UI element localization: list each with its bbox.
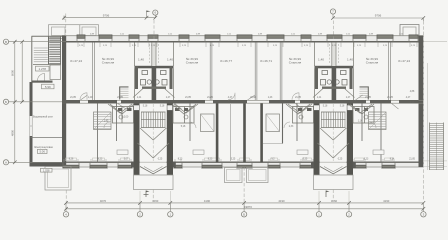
faint lines bottom-right [424,160,448,162]
exterior walls [62,36,424,168]
internal basement stairs at midwall [120,89,368,98]
axis dashed verticals [66,14,424,203]
stair flight right (dark hatch) [49,37,60,65]
entrance 1 canopy + porch [140,167,166,174]
svg-text:1,40: 1,40 [138,58,144,62]
annex mid wall [32,81,53,83]
svg-text:8,23: 8,23 [178,158,183,160]
svg-text:4190: 4190 [278,199,285,203]
svg-text:1,40: 1,40 [347,58,353,62]
svg-text:4190: 4190 [204,199,211,203]
porch bottom-left [45,167,71,191]
right stair core bottom [314,104,354,176]
svg-text:21,85: 21,85 [185,97,191,99]
svg-text:1,47: 1,47 [346,97,351,99]
svg-text:8,24: 8,24 [390,158,395,160]
svg-text:8,26: 8,26 [69,158,74,160]
svg-text:21,85: 21,85 [70,97,76,99]
svg-text:5,25: 5,25 [231,158,236,160]
room labels top band [70,57,410,65]
bottom dim tiers [66,203,423,211]
svg-text:4800: 4800 [11,129,15,136]
svg-text:5,18: 5,18 [160,106,165,108]
annex outline [32,35,63,37]
svg-text:3,93: 3,93 [410,102,415,104]
mid wall [62,99,424,101]
svg-text:Спальня: Спальня [366,61,379,65]
door arcs in lower rooms [104,122,376,128]
left wall [62,36,66,167]
svg-text:Спальня: Спальня [102,61,115,65]
dim figures above mid wall [70,97,411,99]
bottom axis circles [63,212,426,217]
svg-text:Зч 47,24: Зч 47,24 [70,59,82,63]
svg-text:21,08: 21,08 [250,97,256,99]
svg-text:0,25: 0,25 [158,158,163,160]
svg-text:Спальня: Спальня [289,61,302,65]
svg-text:А: А [5,160,7,164]
window wells [225,168,243,183]
door swing diagonals below mid wall [108,104,372,113]
svg-text:8,23: 8,23 [208,158,213,160]
svg-text:8,23: 8,23 [364,158,369,160]
tiny figures above top wall [90,34,404,36]
svg-text:1.038: 1.038 [43,168,50,172]
svg-text:Водомерный узел: Водомерный узел [33,116,53,119]
svg-text:1,43: 1,43 [268,97,273,99]
svg-text:Зч 46,71: Зч 46,71 [260,59,272,63]
windows top [77,35,418,42]
bath cluster boxes bottom band [113,107,375,124]
svg-text:5,18: 5,18 [143,106,148,108]
svg-text:4,47: 4,47 [228,97,233,99]
svg-text:2,00: 2,00 [124,117,129,119]
svg-text:21,85: 21,85 [117,97,123,99]
svg-text:1,41: 1,41 [317,97,322,99]
svg-text:Зч 47,24: Зч 47,24 [398,59,410,63]
left axes [3,39,66,165]
svg-text:6000: 6000 [11,69,15,76]
svg-text:4,88: 4,88 [410,91,415,93]
svg-text:21,85: 21,85 [295,97,301,99]
window bay stubs and radiators [64,42,417,161]
interior thin walls: top band (double lines) [93,42,391,100]
svg-text:Спальня: Спальня [186,61,199,65]
left stair core bottom [134,104,174,176]
svg-text:5,07: 5,07 [124,158,129,160]
benchmark flags [144,191,327,198]
svg-text:21,25: 21,25 [207,97,213,99]
svg-text:1,16: 1,16 [358,121,363,123]
svg-text:19870: 19870 [244,205,252,209]
svg-text:4190: 4190 [383,199,390,203]
small fixtures in clusters [118,108,368,111]
svg-text:3060: 3060 [152,199,159,203]
svg-text:5.99: 5.99 [45,85,51,89]
svg-text:0,25: 0,25 [338,158,343,160]
door arc [38,74,45,81]
svg-text:В: В [5,40,7,44]
svg-text:1,40: 1,40 [88,97,93,99]
roof outline top-left [49,25,99,39]
svg-text:4,47: 4,47 [406,97,411,99]
right top core [313,42,355,100]
svg-text:4070: 4070 [100,199,107,203]
misc small labels bottom band [104,91,415,128]
stair core axis dashes [153,104,333,161]
svg-text:Зч 46,77: Зч 46,77 [220,59,232,63]
svg-text:21,25: 21,25 [387,97,393,99]
svg-text:5.06: 5.06 [39,150,45,154]
dim figures above bottom wall [69,158,416,160]
top dim left [64,10,158,20]
mid wall door swing marks at gaps [81,95,399,109]
bottom wall hollow band [62,162,424,167]
svg-text:1,43: 1,43 [104,121,109,123]
interior walls bottom band [98,104,382,163]
svg-text:1,47: 1,47 [166,97,171,99]
svg-text:2,33: 2,33 [289,126,294,128]
svg-text:1,40: 1,40 [318,58,324,62]
svg-text:1,41: 1,41 [137,97,142,99]
svg-text:9706: 9706 [103,13,110,17]
svg-text:21,85: 21,85 [365,97,371,99]
svg-text:Б: Б [5,100,7,104]
svg-text:8,23: 8,23 [98,158,103,160]
svg-text:3060: 3060 [331,199,338,203]
entrance 2 canopy + porch [320,167,346,174]
top dim right [330,9,423,21]
windows bottom [62,161,396,169]
svg-text:1.278: 1.278 [38,67,46,71]
svg-text:5,25: 5,25 [303,158,308,160]
kitchen corner stairs (vertical rungs boxes) [94,112,387,132]
svg-text:Б: Б [243,213,245,217]
svg-text:Электрощитовая: Электрощитовая [34,146,53,149]
label box 5.99 [42,84,55,89]
left top core [133,42,175,100]
right wall [419,36,424,167]
vent shaft top-right [400,25,419,39]
label box 1.278 [36,66,50,71]
svg-text:5,18: 5,18 [181,126,186,128]
svg-text:1,40: 1,40 [167,58,173,62]
svg-text:5,18: 5,18 [323,106,328,108]
mid wall door arcs (into top rooms) [80,93,299,100]
top wall hollow band [62,36,424,42]
svg-text:5,18: 5,18 [340,106,345,108]
svg-text:21,85: 21,85 [409,158,415,160]
svg-text:9706: 9706 [375,14,382,18]
